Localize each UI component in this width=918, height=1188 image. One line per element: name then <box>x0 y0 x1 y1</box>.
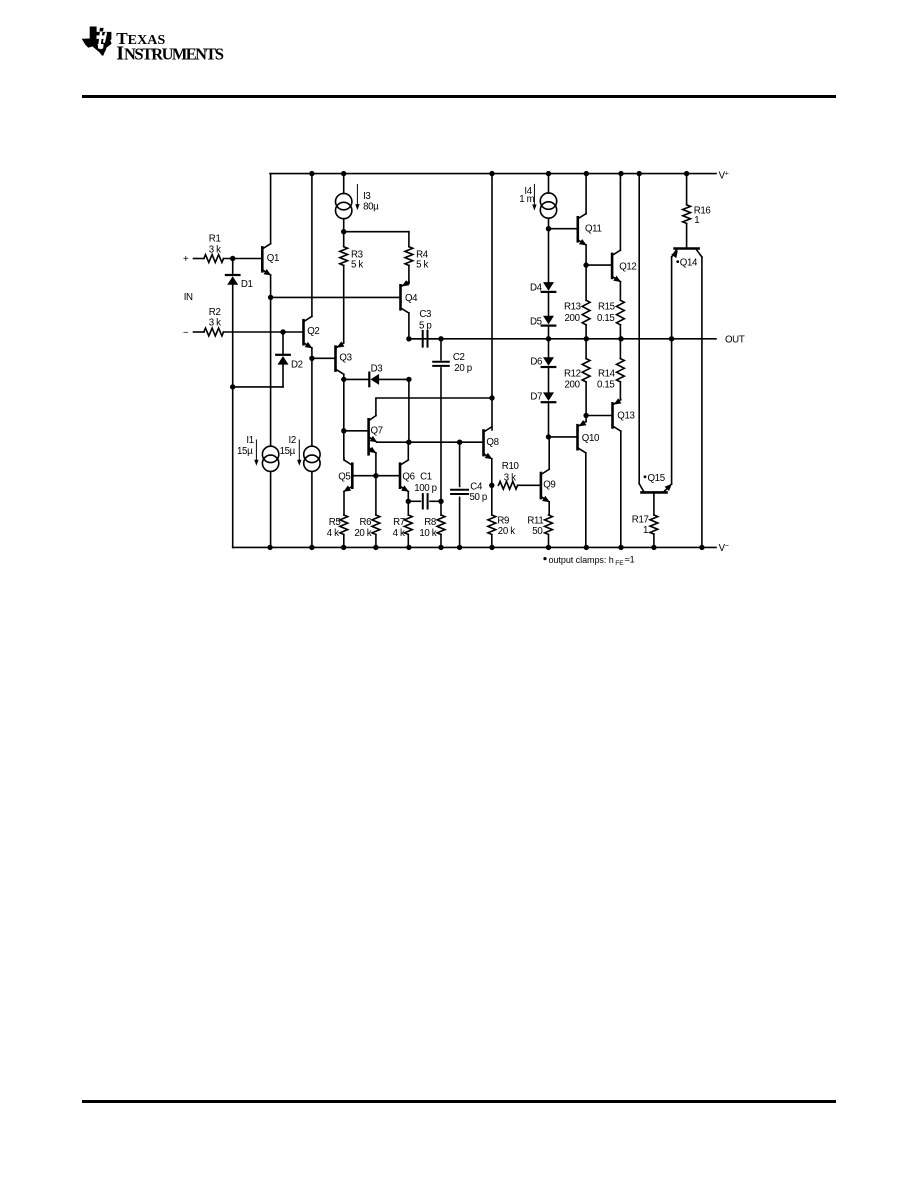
svg-text:1: 1 <box>643 525 648 536</box>
label R4 <box>416 249 429 270</box>
svg-text:C2: C2 <box>453 352 465 363</box>
wire Q7 base <box>344 430 369 432</box>
wire Q1 node to I1 <box>270 297 272 446</box>
label Q14 <box>676 258 698 269</box>
node V-/R11 junction <box>546 545 551 550</box>
svg-text:10 k: 10 k <box>419 528 436 539</box>
bottom rule <box>82 1100 836 1103</box>
svg-text:5 k: 5 k <box>416 260 428 271</box>
node V-/C4 junction <box>457 545 462 550</box>
svg-text:Q7: Q7 <box>371 426 383 437</box>
wire Q13 base line <box>586 415 612 417</box>
svg-text:Q15: Q15 <box>648 473 665 484</box>
wire Q1 collector to V+ <box>270 174 272 244</box>
node V-/Q14 collector junction <box>699 545 704 550</box>
svg-text:R14: R14 <box>598 368 616 379</box>
node V+/Q2 junction <box>309 171 314 176</box>
resistor R10 <box>499 481 518 489</box>
wire Q3 node down to Q7 base <box>343 379 345 430</box>
label R2 <box>209 307 221 329</box>
current source I1 <box>262 446 278 471</box>
svg-text:3 k: 3 k <box>209 317 221 328</box>
resistor R9 <box>488 515 496 535</box>
wire R5 to V- <box>343 535 345 548</box>
wire R6 top <box>375 476 377 515</box>
wire D1 top <box>232 259 234 275</box>
wire R9 to V- <box>491 535 493 548</box>
label R9 <box>497 515 515 537</box>
label Q10 <box>582 433 600 444</box>
wire + input lead <box>194 258 204 260</box>
wire I3 to R3 node <box>343 219 345 247</box>
label R16 <box>694 206 711 227</box>
svg-text:−: − <box>183 327 189 338</box>
node OUT/C2 junction <box>438 336 443 341</box>
svg-text:20 p: 20 p <box>454 363 471 374</box>
node Q7 collector/Q8 collector junction <box>489 395 494 400</box>
wire D2 top <box>282 332 284 354</box>
wire D1 bottom to V- <box>232 285 234 548</box>
node Q2 emitter/Q3 base junction <box>309 356 314 361</box>
node V-/R6 junction <box>373 545 378 550</box>
node V+/Q15 junction <box>637 171 642 176</box>
label IN <box>184 292 193 303</box>
svg-text:20 k: 20 k <box>498 526 515 537</box>
svg-text:R5: R5 <box>329 517 341 528</box>
node D1/D2 junction <box>230 384 235 389</box>
svg-text:1: 1 <box>694 215 699 226</box>
svg-text:OUT: OUT <box>725 334 745 345</box>
wire Q11 emitter down <box>585 245 587 300</box>
node V-/Q13 junction <box>618 545 623 550</box>
label Q13 <box>617 411 634 422</box>
node V-/I1 junction <box>267 545 272 550</box>
label C4 <box>470 481 487 503</box>
svg-text:Q13: Q13 <box>617 411 634 422</box>
svg-text:Q4: Q4 <box>405 293 418 304</box>
wire Q5 collector up <box>343 458 345 460</box>
label R10 <box>502 461 520 484</box>
capacitor C4 <box>451 490 468 494</box>
TI logo <box>78 22 308 67</box>
resistor R5 <box>340 515 348 535</box>
svg-text:R15: R15 <box>598 302 615 313</box>
label D5 <box>530 317 542 328</box>
wire R13 to OUT <box>585 325 587 339</box>
diode D4 <box>542 282 556 292</box>
svg-text:D3: D3 <box>371 364 383 375</box>
wire Q7 emitter1 to Q8 base <box>377 441 484 443</box>
wire V- rail <box>233 546 716 548</box>
transistor Q5 <box>343 460 352 492</box>
svg-text:R13: R13 <box>564 302 581 313</box>
node OUT/R15 junction <box>618 336 623 341</box>
diode D3 <box>369 373 379 387</box>
label I4 <box>519 186 534 205</box>
node Q6 emitter/C1 junction <box>406 499 411 504</box>
svg-text:R9: R9 <box>497 515 509 526</box>
node I4/Q11 base junction <box>546 226 551 231</box>
node Q3 emitter/D3 junction <box>341 377 346 382</box>
svg-text:200: 200 <box>565 313 581 324</box>
wire V+ to R16 <box>686 174 688 205</box>
svg-text:4 k: 4 k <box>327 528 339 539</box>
node V+/I3 junction <box>341 171 346 176</box>
label V- <box>719 543 729 554</box>
wire C1 left <box>408 500 420 502</box>
transistor Q7 <box>369 416 378 455</box>
wire D3 left <box>344 378 368 380</box>
label R3 <box>351 249 363 270</box>
svg-text:FE: FE <box>615 560 624 567</box>
node OUT/diode-string junction <box>546 336 551 341</box>
wire Q10 base line <box>549 436 578 438</box>
svg-text:3 k: 3 k <box>504 473 516 484</box>
resistor R2 <box>204 328 224 336</box>
wire R7 to V- <box>407 535 409 548</box>
arrow I3 direction <box>355 185 359 211</box>
top rule <box>82 95 836 98</box>
wire D4 to D5 <box>548 293 550 316</box>
svg-text:C4: C4 <box>470 481 483 492</box>
resistor R4 <box>405 247 413 266</box>
wire Q3 collector down <box>343 375 345 380</box>
svg-text:R7: R7 <box>393 517 405 528</box>
resistor R15 <box>617 300 625 325</box>
wire Q8 emitter down <box>491 459 493 515</box>
label I1 <box>237 435 254 457</box>
resistor R16 <box>683 205 691 224</box>
svg-text:0.15: 0.15 <box>597 380 614 391</box>
wire R17 to V- <box>653 534 655 547</box>
transistor Q6 <box>400 460 409 492</box>
label C2 <box>453 352 472 374</box>
wire R11 to V- <box>548 535 550 548</box>
wire Q14 emitter to OUT <box>671 257 673 339</box>
svg-text:4 k: 4 k <box>393 528 405 539</box>
svg-text:50 p: 50 p <box>470 492 487 503</box>
wire V+ to Q8 collector <box>491 174 493 430</box>
svg-text:1 m: 1 m <box>519 194 534 205</box>
wire V+ to Q15 collector <box>638 174 640 484</box>
wire Q2 collector to V+ <box>311 174 313 317</box>
svg-text:50: 50 <box>532 526 543 537</box>
transistor Q1 <box>262 244 271 276</box>
wire Q2 emitter down <box>311 348 313 358</box>
svg-text:Q8: Q8 <box>486 437 498 448</box>
wire Q11 collector to V+ <box>585 174 587 214</box>
label Q9 <box>543 480 555 491</box>
wire Q7 collector up and right <box>376 398 492 416</box>
wire C4 bottom <box>459 497 461 547</box>
node Q5/Q6 base junction <box>373 473 378 478</box>
wire V+ rail <box>270 173 716 175</box>
node V-/R17 junction <box>651 545 656 550</box>
svg-text:R10: R10 <box>502 461 520 472</box>
label Q5 <box>338 472 350 483</box>
label Q4 <box>405 293 418 304</box>
wire Q14 collector to V- <box>701 257 703 547</box>
wire Q2 emitter to I2 <box>311 358 313 446</box>
wire Q13 collector to V- <box>620 431 622 547</box>
node R12/Q13base/Q10em junction <box>583 413 588 418</box>
resistor R17 <box>650 515 658 534</box>
label D3 <box>371 364 383 375</box>
resistor R3 <box>340 247 348 266</box>
label C3 <box>419 309 431 332</box>
svg-text:D1: D1 <box>241 279 253 290</box>
resistor R11 <box>545 515 553 535</box>
wire Q5 base line <box>352 475 400 477</box>
wire C3 right <box>430 338 441 340</box>
node Q8base/Q4 collector junction <box>406 440 411 445</box>
transistor Q8 <box>484 427 493 459</box>
texas map glyph <box>82 27 112 56</box>
diode D6 <box>542 357 556 367</box>
wire OUT to R12 <box>585 339 587 359</box>
node V-/R7 junction <box>406 545 411 550</box>
node C1/R8 junction <box>438 499 443 504</box>
label R7 <box>393 517 405 539</box>
wire C4 top <box>459 442 461 486</box>
node V-/R5 junction <box>341 545 346 550</box>
transistor Q15 <box>639 484 672 493</box>
transistor Q11 <box>578 214 587 246</box>
wire I1 to V- <box>270 472 272 548</box>
node Q8base/C4 junction <box>457 440 462 445</box>
label D6 <box>530 357 542 368</box>
label Q1 <box>267 253 279 264</box>
wire Q4 collector down <box>408 313 410 339</box>
node V+/Q11 junction <box>584 171 589 176</box>
wire - input lead <box>194 331 204 333</box>
svg-text:I3: I3 <box>363 191 370 202</box>
arrow I4 direction <box>532 184 536 210</box>
svg-text:I2: I2 <box>289 435 296 446</box>
svg-text:R1: R1 <box>209 233 221 244</box>
node Q7 base junction <box>341 428 346 433</box>
current source I4 <box>540 193 556 218</box>
diode D5 <box>542 316 556 326</box>
label R15 <box>597 302 615 325</box>
label R13 <box>564 302 581 325</box>
label output clamps note <box>543 555 634 567</box>
wire Q6 collector up <box>407 442 409 460</box>
svg-text:C3: C3 <box>419 309 431 320</box>
node V-/Q10 junction <box>584 545 589 550</box>
wire C3 left <box>409 338 420 340</box>
wire OUT line <box>409 338 716 340</box>
svg-text:C1: C1 <box>420 472 432 483</box>
wire V+ to I3 <box>343 174 345 194</box>
svg-text:5 k: 5 k <box>351 260 363 271</box>
label C1 <box>414 472 437 495</box>
diode D2 <box>276 355 290 365</box>
wire I4 to D4 node <box>548 218 550 282</box>
wire D3 right <box>379 378 409 380</box>
capacitor C2 <box>433 362 449 366</box>
current source I3 <box>336 193 352 218</box>
label I3 <box>363 191 379 212</box>
node D7/Q9/Q10 junction <box>546 434 551 439</box>
node OUT/R13 junction <box>584 336 589 341</box>
label R5 <box>327 517 341 539</box>
wire D5 to OUT <box>548 327 550 339</box>
label + input <box>183 254 189 265</box>
wire R8 top <box>440 501 442 515</box>
svg-text:100 p: 100 p <box>414 483 437 494</box>
svg-text:80µ: 80µ <box>363 202 379 213</box>
transistor Q2 <box>304 317 313 349</box>
resistor R12 <box>582 359 590 382</box>
svg-text:D2: D2 <box>291 360 303 371</box>
wire Q12 collector to V+ <box>619 174 621 251</box>
svg-text:D6: D6 <box>530 357 542 368</box>
diode D7 <box>542 392 556 402</box>
resistor R8 <box>437 515 445 535</box>
transistor Q3 <box>336 341 345 374</box>
label Q8 <box>486 437 498 448</box>
svg-text:R6: R6 <box>360 517 372 528</box>
svg-text:Q10: Q10 <box>582 433 600 444</box>
wire R8 to V- <box>440 535 442 548</box>
label Q2 <box>307 326 319 337</box>
wire R14 to Q13 emitter <box>619 382 621 400</box>
node Q11em/Q12 base junction <box>583 262 588 267</box>
transistor Q4 <box>401 280 410 313</box>
svg-text:R8: R8 <box>424 517 436 528</box>
wire R6 to V- <box>375 535 377 548</box>
wire Q9 collector up <box>548 437 550 469</box>
wire Q1 emitter to Q4 base <box>271 296 401 298</box>
wire Q10 collector to V- <box>585 453 587 548</box>
wire I2 to V- <box>311 472 313 548</box>
logo wordmark <box>116 29 224 65</box>
wire R1 to Q1 base <box>224 258 263 260</box>
wire Q3 base <box>312 357 336 359</box>
wire D7 to Q10 base node <box>548 403 550 437</box>
node V-/R9 junction <box>489 545 494 550</box>
svg-text:≈1: ≈1 <box>625 555 635 565</box>
svg-text:20 k: 20 k <box>354 528 371 539</box>
label OUT <box>725 334 745 345</box>
wire Q15 base to R17 <box>653 492 655 515</box>
label D7 <box>530 392 542 403</box>
node OUT/C3 left junction <box>406 336 411 341</box>
label Q6 <box>402 472 414 483</box>
transistor Q13 <box>613 398 622 431</box>
wire I3 node to R4 <box>344 232 409 247</box>
node D3/Q4 collector junction <box>406 377 411 382</box>
svg-text:R2: R2 <box>209 307 221 318</box>
label R8 <box>419 517 436 539</box>
wire Q7 emitter2 down <box>375 453 377 476</box>
label R1 <box>209 233 221 255</box>
svg-text:5 p: 5 p <box>419 321 431 332</box>
transistor Q14 <box>671 249 702 259</box>
wire D2 bottom <box>233 365 283 387</box>
svg-text:Q6: Q6 <box>402 472 414 483</box>
wire Q12 emitter down <box>619 282 621 301</box>
transistor Q9 <box>541 469 550 502</box>
arrow I1 direction <box>254 440 258 466</box>
arrow I2 direction <box>297 440 301 466</box>
label I2 <box>280 435 296 457</box>
svg-text:3 k: 3 k <box>209 245 221 256</box>
label Q3 <box>339 352 351 363</box>
node V-/R8 junction <box>438 545 443 550</box>
svg-text:D4: D4 <box>530 283 543 294</box>
label V+ <box>719 171 729 182</box>
label Q15 <box>644 473 665 484</box>
label R11 <box>527 515 543 537</box>
svg-text:200: 200 <box>565 380 581 391</box>
wire Q3 node down to Q5 collector <box>343 431 345 458</box>
svg-text:D5: D5 <box>530 317 542 328</box>
svg-text:Q3: Q3 <box>339 352 351 363</box>
wire D6 to D7 <box>548 368 550 392</box>
wire Q9 emitter down <box>548 502 550 515</box>
transistor Q12 <box>612 250 621 282</box>
label - input <box>183 327 189 338</box>
wire Q4 collector to Q8 base line <box>408 379 410 442</box>
node V-/I2 junction <box>309 545 314 550</box>
svg-text:IN: IN <box>184 292 193 303</box>
wire Q1 emitter down <box>270 275 272 297</box>
wire V+ to I4 <box>548 174 550 193</box>
svg-text:V+: V+ <box>719 171 729 182</box>
label D1 <box>241 279 253 290</box>
resistor R7 <box>404 515 412 535</box>
label R6 <box>354 517 371 539</box>
label D2 <box>291 360 303 371</box>
label R14 <box>597 368 616 390</box>
svg-text:0.15: 0.15 <box>597 313 614 324</box>
svg-text:Q11: Q11 <box>585 224 602 235</box>
wire Q6 emitter down <box>407 492 409 515</box>
svg-text:+: + <box>183 254 189 265</box>
svg-text:Q9: Q9 <box>543 480 555 491</box>
wire R2 to Q2 base <box>224 331 304 333</box>
wire OUT to R14 <box>619 339 621 359</box>
wire OUT to D6 <box>548 339 550 357</box>
wire R10 to Q9 base <box>518 484 541 486</box>
node Q8 emitter/R10 junction <box>489 483 494 488</box>
node OUT/Q14-Q15 emitter junction <box>669 336 674 341</box>
wire C2 bottom <box>440 368 442 501</box>
svg-text:Q2: Q2 <box>307 326 319 337</box>
diode D1 <box>226 275 240 285</box>
wire C2 top <box>440 339 442 360</box>
wire Q5 emitter down <box>343 492 345 515</box>
svg-text:15µ: 15µ <box>237 446 253 457</box>
resistor R1 <box>204 255 224 263</box>
node V+/I4 junction <box>546 171 551 176</box>
current source I2 <box>304 446 320 471</box>
svg-text:Q12: Q12 <box>619 262 636 273</box>
capacitor C3 <box>423 331 428 347</box>
node V+/Q8 junction <box>489 171 494 176</box>
wire R4 to Q4 emitter <box>408 265 410 283</box>
svg-text:Q14: Q14 <box>680 258 698 269</box>
wire R3 to Q3 collector <box>343 265 345 342</box>
wire OUT to Q15 emitter <box>671 339 673 484</box>
resistor R13 <box>582 300 590 325</box>
node V+/Q12 junction <box>618 171 623 176</box>
label D4 <box>530 283 543 294</box>
node Q1 emitter junction <box>268 295 273 300</box>
wire I4 node to Q11 base <box>549 228 578 230</box>
